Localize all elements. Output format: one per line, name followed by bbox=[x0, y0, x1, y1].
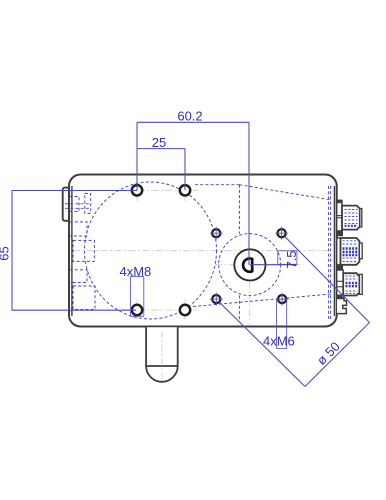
svg-text:25: 25 bbox=[152, 135, 166, 150]
output D-shaft hole bbox=[243, 259, 252, 272]
M8 hole top-left bbox=[132, 185, 142, 195]
dimension 60.2 bbox=[137, 122, 249, 264]
svg-text:4xM6: 4xM6 bbox=[263, 333, 295, 348]
svg-text:7.5: 7.5 bbox=[284, 250, 299, 268]
hidden gear housing ellipse (dashed) bbox=[85, 182, 217, 319]
body outline bbox=[69, 175, 337, 327]
right connector 2 (middle) bbox=[337, 230, 362, 270]
dimension 25 bbox=[137, 149, 185, 191]
M6 hole top-right bbox=[278, 229, 286, 237]
svg-text:65: 65 bbox=[0, 246, 12, 260]
bottom cylinder bbox=[146, 327, 178, 382]
M8 hole bottom-right bbox=[180, 305, 190, 315]
body inner edge left bbox=[71, 186, 73, 316]
M6 hole top-left bbox=[212, 229, 220, 237]
hidden left-side fastener rects (dashed) bbox=[65, 194, 95, 310]
dimension 7.5 bbox=[250, 251, 297, 265]
output shaft circle bbox=[234, 249, 265, 280]
label 4xM8 with leader box bbox=[131, 277, 144, 317]
M6 hole bottom-left bbox=[212, 295, 220, 303]
dimension 65 bbox=[12, 191, 137, 311]
M8 hole top-right bbox=[180, 185, 190, 195]
body inner edge right bbox=[333, 186, 335, 316]
left mounting tab bbox=[63, 188, 71, 221]
centerlines gray bbox=[73, 181, 330, 381]
M6 hole bottom-right bbox=[278, 295, 286, 303]
M8 hole bottom-left bbox=[132, 305, 142, 315]
right connector 3 (bottom) bbox=[337, 270, 363, 298]
M6 hole center crosses bbox=[210, 227, 289, 306]
hidden output boss circle (dashed) bbox=[219, 234, 281, 296]
hidden cavity lines (dashed) bbox=[193, 185, 331, 322]
dimension diameter 50 diagonal bbox=[220, 237, 370, 387]
svg-text:60.2: 60.2 bbox=[177, 109, 202, 124]
right connector 1 (top) bbox=[337, 200, 362, 233]
svg-text:4xM8: 4xM8 bbox=[120, 264, 152, 279]
label 4xM6 with leader box bbox=[277, 299, 287, 348]
stepped lug below connectors bbox=[337, 299, 347, 314]
